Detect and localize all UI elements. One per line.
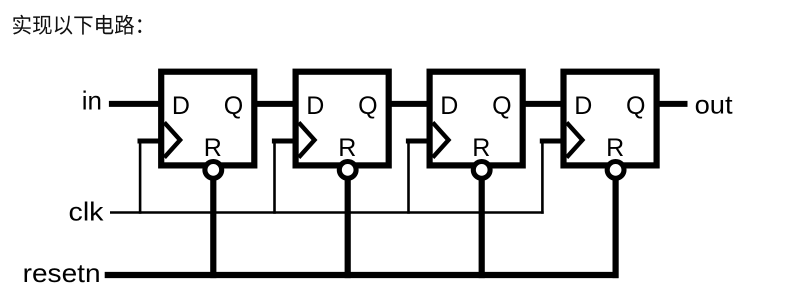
wire clk bus to U2 clock input [272, 141, 297, 214]
wire in to U1 D input [109, 101, 162, 107]
svg-text:D: D [574, 92, 592, 120]
D flip-flop U3 [430, 72, 523, 179]
wire U2 Q to U3 D [389, 101, 430, 107]
svg-text:resetn: resetn [23, 258, 101, 288]
reset bubble U4 [607, 162, 624, 179]
clock triangle U1 [164, 123, 180, 158]
wire U4 Q to out [657, 101, 688, 107]
svg-text:out: out [695, 90, 734, 120]
svg-text:clk: clk [69, 196, 105, 226]
reset bubble U1 [205, 162, 222, 179]
svg-text:R: R [606, 134, 624, 162]
svg-text:D: D [440, 92, 458, 120]
svg-text:R: R [338, 134, 356, 162]
svg-text:Q: Q [492, 92, 511, 120]
clock triangle U3 [433, 123, 449, 158]
svg-text:Q: Q [626, 92, 645, 120]
clock triangle U2 [299, 123, 315, 158]
D flip-flop U1 [161, 72, 254, 179]
D flip-flop U4 [564, 72, 657, 179]
svg-text:D: D [172, 92, 190, 120]
svg-text:Q: Q [358, 92, 377, 120]
wire clk bus to U4 clock input [540, 141, 565, 214]
wire clk bus [110, 211, 544, 214]
wire resetn bus to U3 R input [479, 170, 485, 278]
reset bubble U3 [473, 162, 490, 179]
reset bubble U2 [339, 162, 356, 179]
svg-text:D: D [306, 92, 324, 120]
svg-text:in: in [82, 86, 102, 116]
D flip-flop U2 [296, 72, 389, 179]
wire resetn bus [105, 272, 619, 278]
wire resetn bus to U1 R input [210, 170, 216, 278]
wire resetn bus to U4 R input [612, 170, 618, 278]
wire clk bus to U1 clock input [138, 141, 163, 214]
wire resetn bus to U2 R input [345, 170, 351, 278]
wire U3 Q to U4 D [523, 101, 564, 107]
title text 实现以下电路： [13, 15, 141, 35]
wire clk bus to U3 clock input [406, 141, 431, 214]
svg-text:R: R [472, 134, 490, 162]
svg-text:R: R [204, 134, 222, 162]
wire U1 Q to U2 D [254, 101, 295, 107]
clock triangle U4 [567, 123, 583, 158]
svg-text:Q: Q [224, 92, 243, 120]
